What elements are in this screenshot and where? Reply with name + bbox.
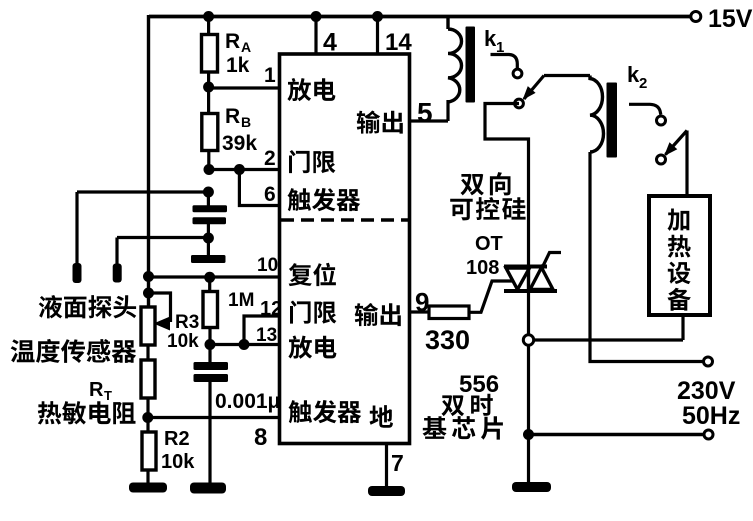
contact K1 moving terminal bbox=[515, 99, 524, 108]
wire K1 arm to K2 coil bbox=[544, 74, 590, 77]
node junction pin14 lead on rail bbox=[372, 11, 383, 22]
label liquid level probe bbox=[39, 295, 137, 318]
node junction pin2 left bbox=[204, 164, 215, 175]
relay K2 core bar bbox=[607, 83, 618, 158]
probe electrode 1 (liquid level) bbox=[73, 263, 82, 283]
IC label output (top) bbox=[357, 111, 403, 134]
relay K1 core bar bbox=[466, 27, 476, 103]
svg-text:330: 330 bbox=[425, 325, 470, 355]
IC label threshold (bottom) bbox=[290, 301, 336, 324]
contact K1 arm bbox=[524, 76, 544, 100]
node junction RA top on rail bbox=[203, 11, 214, 22]
svg-text:7: 7 bbox=[391, 450, 404, 476]
wire K2 arm pivot down to heater bbox=[685, 131, 688, 198]
wire branch down to pin 6 bbox=[239, 170, 280, 206]
wire R3 to RT bbox=[146, 345, 149, 361]
svg-text:108: 108 bbox=[466, 257, 499, 279]
wire K1 coil bottom lead bbox=[446, 100, 449, 121]
ground below pin 7 bbox=[368, 486, 405, 496]
wire node1 to RB top bbox=[207, 88, 210, 115]
contact K1 fixed terminal bbox=[513, 69, 522, 78]
triac MT1 bar bbox=[504, 289, 557, 293]
IC label trigger (top) bbox=[288, 188, 361, 211]
wire RA bottom to node 1 bbox=[207, 72, 210, 88]
resistor 1M bbox=[203, 292, 218, 328]
wire rail to RA top bbox=[207, 17, 210, 37]
wire node to C3 top bbox=[208, 345, 211, 364]
IC label trigger (bottom) bbox=[289, 400, 362, 423]
wire pin 8 bbox=[148, 416, 280, 419]
svg-text:R3: R3 bbox=[175, 312, 199, 333]
wire probe1 horizontal bbox=[77, 190, 208, 193]
resistor RA bbox=[202, 35, 218, 73]
svg-text:39k: 39k bbox=[222, 132, 257, 155]
ground below C3 bbox=[190, 483, 226, 494]
IC label discharge (bottom) bbox=[288, 336, 336, 359]
svg-text:230V: 230V bbox=[677, 377, 736, 405]
contact K1 fixed lead bbox=[491, 55, 518, 69]
IC label threshold (top) bbox=[289, 150, 335, 173]
node junction probe2 tap bbox=[203, 233, 214, 244]
terminal 15V bbox=[691, 12, 701, 22]
wire C3 bottom to ground bbox=[208, 382, 211, 487]
contact K2 fixed lead bbox=[629, 104, 661, 114]
wire probe1 vertical bbox=[75, 192, 78, 266]
wire node8 to R2 bbox=[146, 418, 149, 434]
relay coil K1 bbox=[448, 16, 462, 102]
arrow R3 wiper bbox=[154, 317, 171, 331]
svg-text:10k: 10k bbox=[167, 331, 199, 352]
svg-text:5: 5 bbox=[417, 97, 433, 128]
wire node to 1M resistor bbox=[208, 277, 211, 293]
wire C1 bottom lead to node bbox=[207, 224, 210, 239]
wire probe2 horizontal bbox=[117, 236, 208, 239]
wire pin 13 bbox=[210, 343, 280, 346]
svg-text:6: 6 bbox=[264, 183, 276, 206]
svg-text:R: R bbox=[89, 379, 104, 401]
label 556 dual timer (shuangshi) bbox=[442, 394, 493, 416]
node junction pin1 bbox=[203, 82, 214, 93]
svg-text:556: 556 bbox=[459, 371, 499, 398]
wire node down to ground bbox=[527, 435, 530, 484]
capacitor C3 0.001u plate bottom bbox=[194, 374, 229, 382]
wire triac MT1 down to node bbox=[527, 291, 530, 335]
wire pin 7 lead bbox=[385, 443, 388, 487]
ground below R2 bbox=[129, 483, 167, 493]
potentiometer R3 bbox=[141, 307, 155, 345]
resistor R2 bbox=[142, 432, 156, 470]
arrow K1 arm bbox=[523, 86, 536, 100]
wire pin 10 horizontal bbox=[147, 275, 280, 278]
resistor 330 bbox=[429, 306, 469, 319]
svg-text:4: 4 bbox=[323, 29, 337, 57]
wire node to chip pin 1 bbox=[209, 86, 280, 89]
svg-text:8: 8 bbox=[254, 424, 267, 451]
wire pin 9 bbox=[409, 310, 429, 313]
node junction R3 wiper bbox=[143, 288, 154, 299]
wire to 230V bottom terminal bbox=[529, 433, 705, 436]
triac MT2 bar bbox=[504, 265, 547, 269]
IC label discharge (top) bbox=[287, 78, 335, 101]
label temperature sensor bbox=[11, 339, 137, 363]
wire 15V top supply rail bbox=[149, 15, 692, 19]
svg-text:13: 13 bbox=[256, 325, 277, 346]
wire triac center bbox=[527, 267, 530, 292]
node junction pin4 lead on rail bbox=[311, 11, 322, 22]
IC label reset bbox=[289, 263, 336, 286]
wire pin 2 bbox=[209, 168, 280, 171]
svg-text:1M: 1M bbox=[228, 290, 254, 311]
svg-text:14: 14 bbox=[385, 29, 412, 56]
probe electrode 2 (liquid level) bbox=[113, 264, 122, 283]
triac triangle right bbox=[530, 268, 553, 290]
node junction 1M bottom bbox=[205, 339, 216, 350]
ground below triac bbox=[512, 482, 551, 492]
wire probe2 vertical bbox=[115, 238, 118, 267]
triac triangle left bbox=[506, 268, 530, 290]
node junction 230V bottom bbox=[523, 429, 534, 440]
svg-text:50Hz: 50Hz bbox=[682, 402, 740, 430]
node junction pin10 / 1M top bbox=[204, 272, 215, 283]
capacitor C1 plate top bbox=[193, 205, 228, 212]
IC U1 556 outline bbox=[280, 54, 410, 444]
svg-text:10k: 10k bbox=[161, 451, 195, 473]
node junction left rail at pin10 wire bbox=[143, 271, 154, 282]
node junction pin8 bbox=[142, 412, 153, 423]
wire RB bottom to node 2 bbox=[207, 150, 210, 170]
capacitor C1 plate bottom bbox=[193, 217, 227, 224]
node junction pin6 branch bbox=[234, 164, 245, 175]
node junction probe1 tap bbox=[203, 187, 214, 198]
label thermistor bbox=[38, 401, 136, 424]
svg-text:9: 9 bbox=[415, 287, 429, 317]
capacitor C2 plate bbox=[191, 255, 226, 263]
relay coil K2 bbox=[590, 76, 604, 153]
IC internal divider dashed bbox=[281, 218, 408, 222]
label heater (vertical) bbox=[667, 209, 691, 311]
wire 330 to gate bbox=[469, 281, 513, 312]
resistor RB bbox=[202, 114, 218, 151]
svg-text:1: 1 bbox=[264, 64, 276, 87]
svg-text:R: R bbox=[225, 105, 240, 128]
svg-text:T: T bbox=[104, 388, 112, 403]
wire 1M bottom to node 13 bbox=[208, 328, 211, 346]
resistor RT (thermistor) bbox=[141, 360, 155, 398]
IC label ground bbox=[370, 405, 393, 428]
contact K2 fixed terminal bbox=[657, 116, 666, 125]
svg-text:OT: OT bbox=[475, 233, 503, 255]
wire K2 coil down to 230V bbox=[590, 152, 703, 362]
heating equipment box bbox=[649, 196, 710, 315]
terminal 230V bottom bbox=[704, 430, 713, 439]
wire triac node down bbox=[527, 345, 530, 435]
wire heater bottom lead bbox=[681, 315, 684, 340]
svg-text:R: R bbox=[225, 30, 240, 53]
svg-text:15V: 15V bbox=[708, 5, 753, 33]
label triac (shuangxiang) bbox=[461, 172, 511, 195]
wire RT to node 8 bbox=[146, 398, 149, 418]
wire pin 14 lead bbox=[376, 17, 379, 54]
svg-text:2: 2 bbox=[264, 147, 276, 170]
svg-text:2: 2 bbox=[639, 75, 647, 92]
node junction pin12 branch bbox=[239, 339, 250, 350]
wire C2 top lead bbox=[207, 238, 210, 256]
wire pin 5 bbox=[409, 119, 448, 122]
wire R2 to ground bbox=[146, 470, 149, 485]
contact K2 moving terminal bbox=[657, 155, 666, 164]
wire branch up to pin 12 bbox=[244, 316, 280, 345]
IC label output (bottom) bbox=[355, 303, 401, 326]
wire K1 moving contact route to triac bbox=[485, 104, 529, 266]
label 556 dual timer (jixinpian) bbox=[423, 416, 503, 440]
wire R3 wiper loop bbox=[150, 293, 171, 322]
wire pin 4 lead bbox=[314, 17, 317, 54]
contact K2 arm bbox=[666, 131, 688, 155]
wire triac node to heater bbox=[534, 338, 684, 341]
arrow K2 arm bbox=[664, 142, 677, 156]
label triac (kekonggui) bbox=[450, 197, 525, 220]
node terminal below triac bbox=[523, 335, 533, 345]
capacitor C3 0.001u plate top bbox=[194, 362, 229, 370]
terminal 230V top bbox=[704, 357, 713, 366]
svg-text:A: A bbox=[241, 39, 251, 55]
triac gate lead bbox=[543, 253, 561, 267]
svg-text:10: 10 bbox=[257, 255, 278, 276]
svg-text:1k: 1k bbox=[226, 54, 250, 77]
wire cap C1 top lead bbox=[207, 192, 210, 206]
wire left rail from 15V down to R3 bbox=[147, 15, 150, 309]
svg-text:0.001μ: 0.001μ bbox=[215, 390, 280, 413]
svg-text:R2: R2 bbox=[164, 428, 190, 450]
svg-text:B: B bbox=[241, 114, 251, 130]
